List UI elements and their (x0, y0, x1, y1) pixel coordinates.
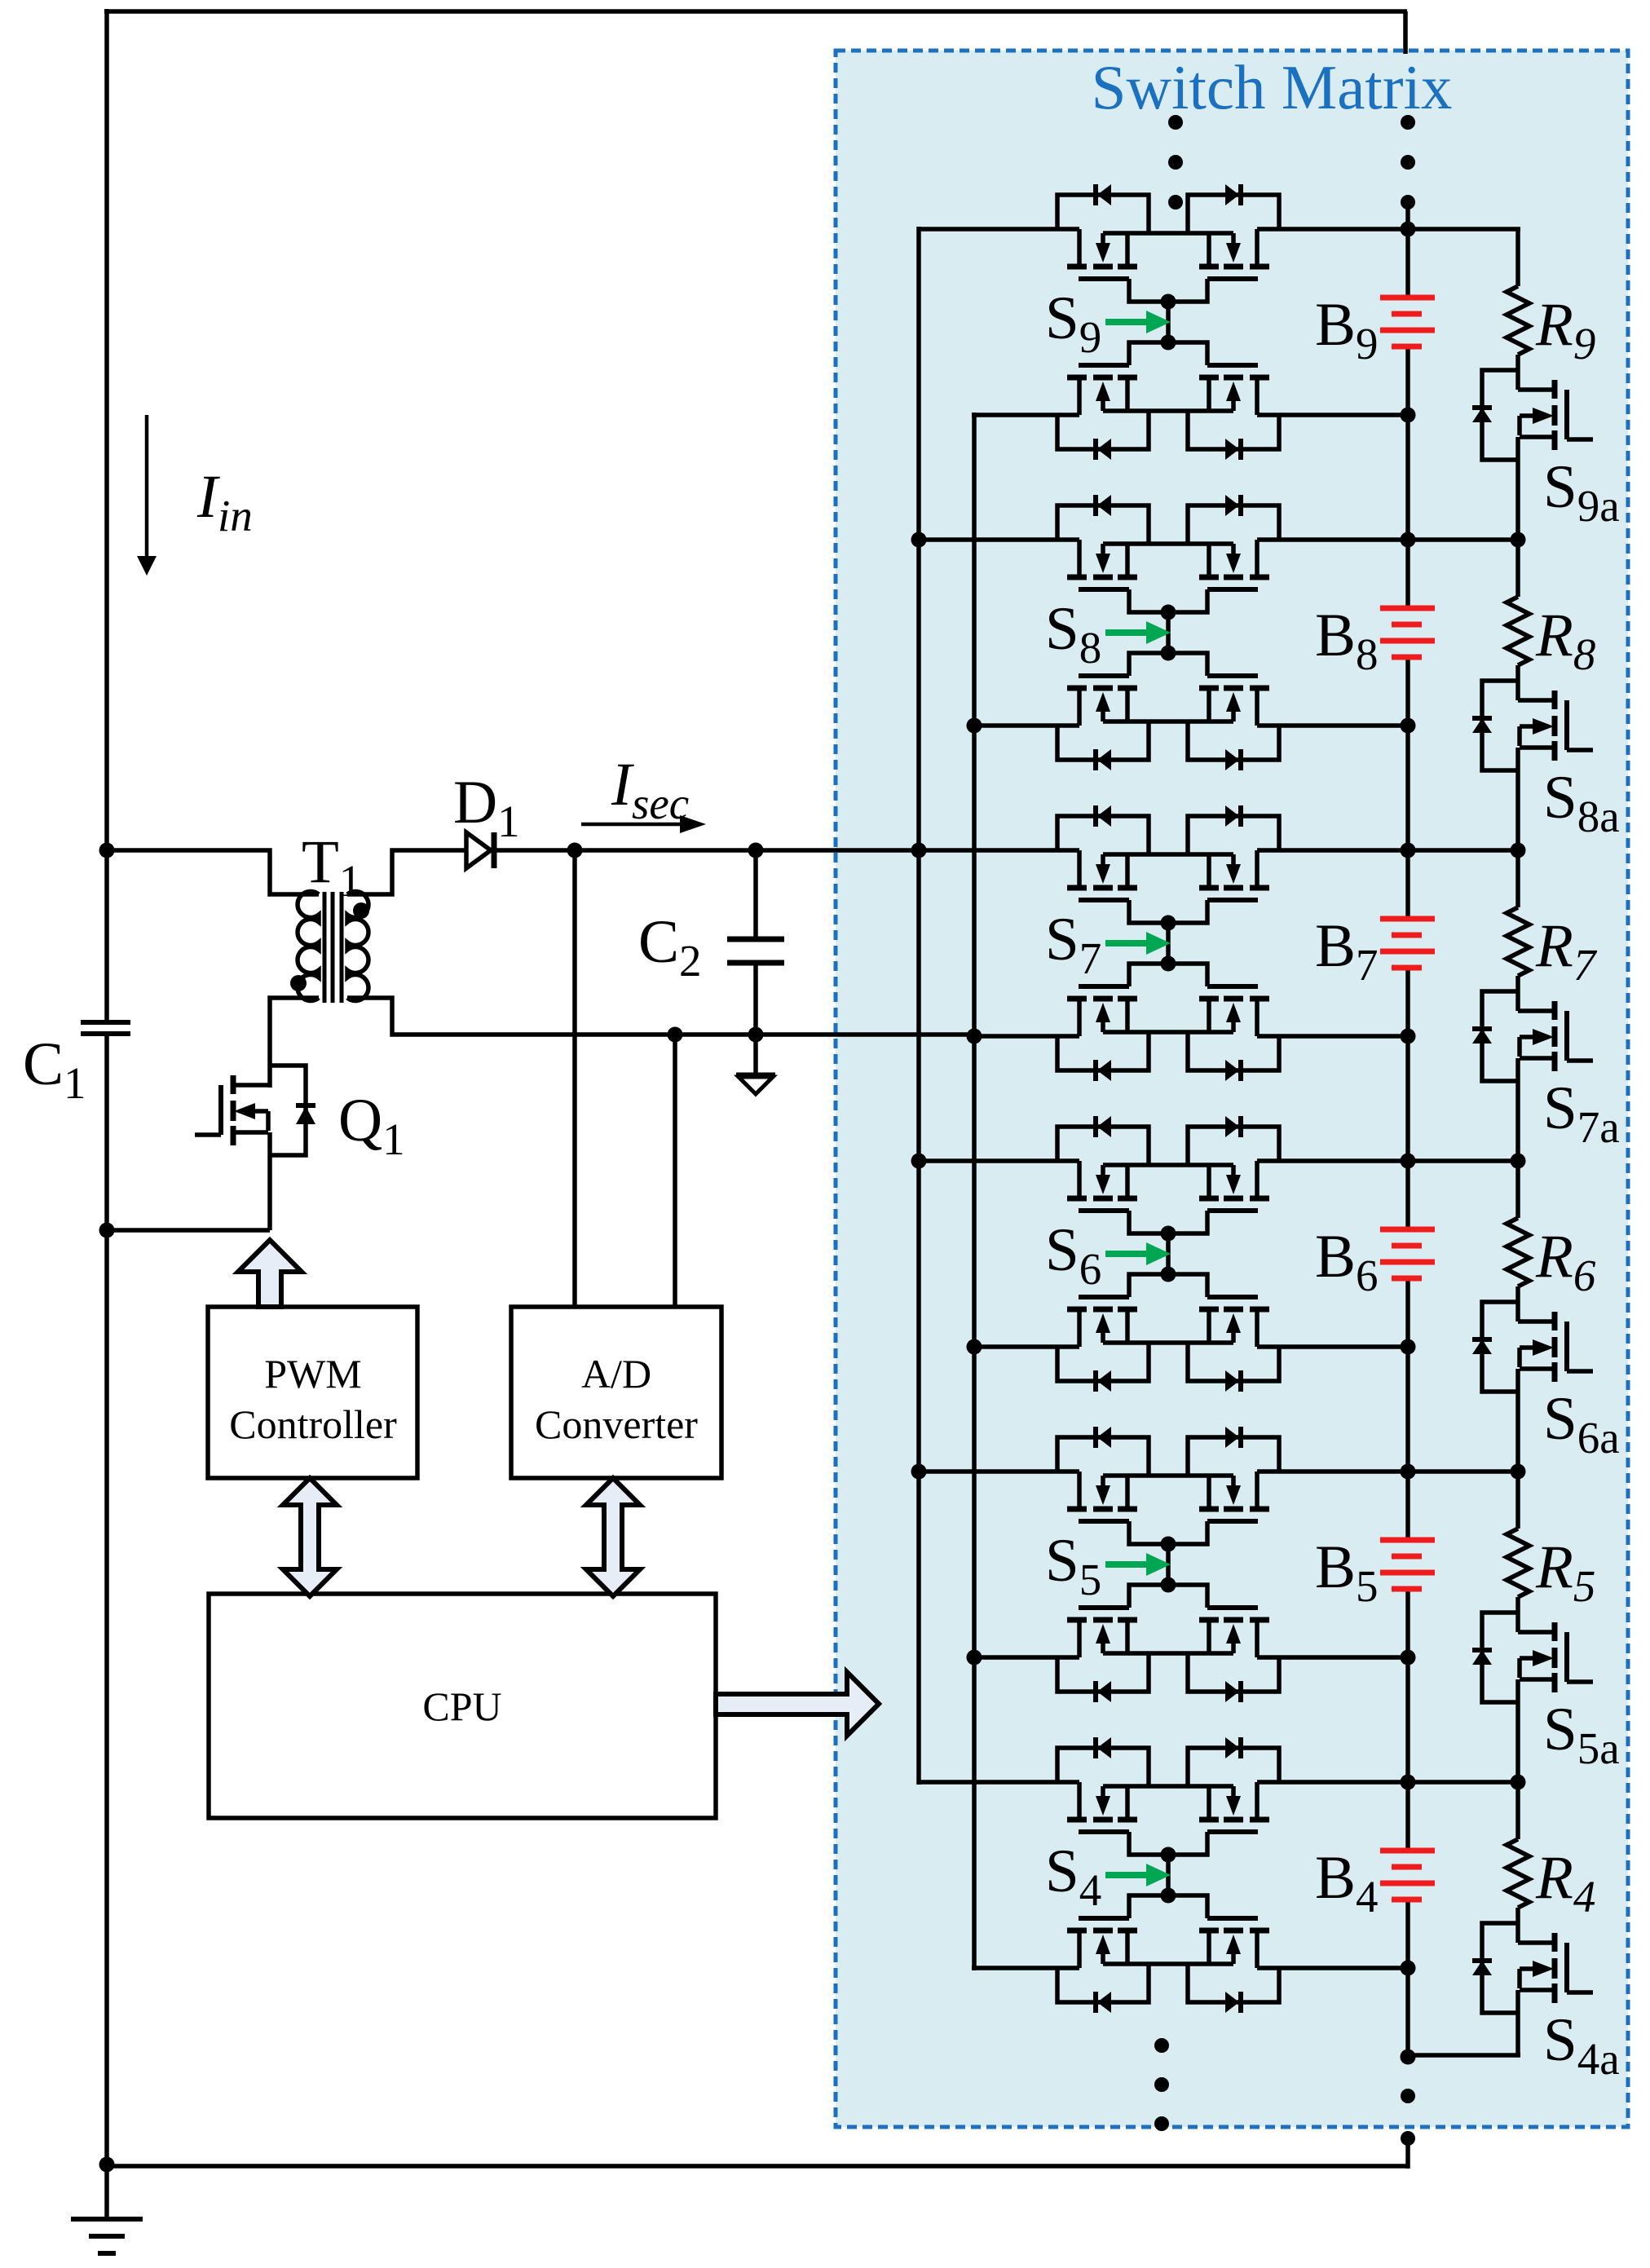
svg-text:PWM: PWM (264, 1351, 361, 1397)
svg-text:Controller: Controller (229, 1401, 397, 1447)
svg-text:CPU: CPU (422, 1683, 501, 1729)
svg-text:Switch Matrix: Switch Matrix (1092, 52, 1453, 122)
svg-text:Converter: Converter (535, 1401, 698, 1447)
svg-text:A/D: A/D (581, 1351, 651, 1397)
